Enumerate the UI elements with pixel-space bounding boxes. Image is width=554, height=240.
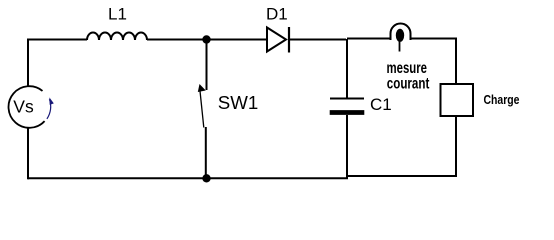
capacitor C1 top plate [330,98,364,100]
wire: load bottom to bottom-right rail [455,116,457,176]
wire: capacitor top lead [346,39,348,98]
diode D1 [267,28,286,52]
svg-text:L1: L1 [108,5,127,24]
wire: top rail left (corner to inductor) [28,40,87,87]
svg-text:Charge: Charge [484,92,520,107]
voltage source Vs (circle) [9,86,45,128]
load Charge (box) [441,84,474,116]
current direction arrowhead (navy) [49,97,53,105]
wire: bottom rail left segment [28,177,348,179]
node: junction dot at switch top [202,35,210,43]
inductor L1 [87,33,147,41]
wire: top rail, probe to top-right corner, down to load [411,39,457,85]
wire: capacitor bottom lead [346,115,348,178]
switch SW1 blade arrowhead [198,84,206,92]
current probe arch [391,24,411,40]
diode D1 cathode bar [288,27,290,53]
svg-text:C1: C1 [370,95,392,114]
wire: top rail, diode to capacitor node [290,39,346,41]
current probe tip (filled oval) [396,29,404,42]
wire: left rail below source [27,128,29,179]
svg-text:mesure: mesure [387,60,428,77]
current direction arrow arc (navy) on source [47,99,51,119]
wire: bottom rail right segment [347,175,457,177]
capacitor C1 bottom plate [330,110,365,115]
switch SW1 bottom contact wire [205,127,207,178]
svg-text:courant: courant [387,76,430,93]
wire: top rail, capacitor node to probe [347,38,390,40]
svg-text:SW1: SW1 [218,93,258,113]
current probe stem [399,41,401,52]
wire: top rail, inductor to diode [147,39,266,41]
svg-text:Vs: Vs [13,96,34,116]
switch SW1 blade [200,89,204,128]
switch SW1 top contact wire [206,43,208,90]
node: junction dot at switch bottom [202,174,210,182]
svg-text:D1: D1 [266,5,288,24]
